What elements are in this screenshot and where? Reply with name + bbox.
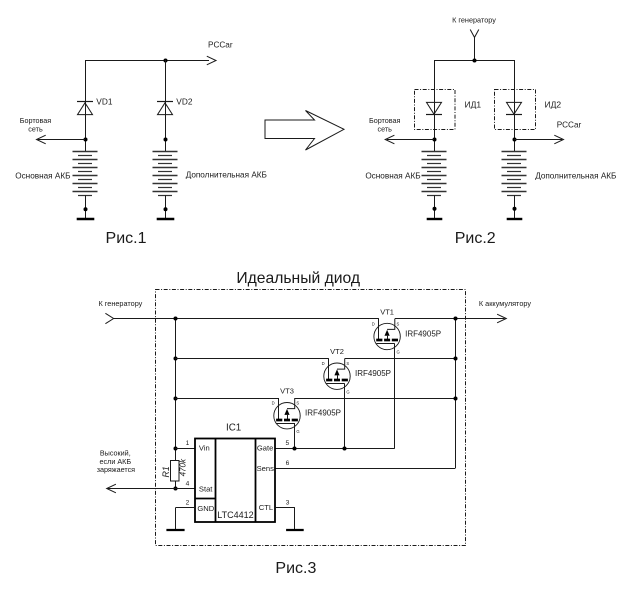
svg-text:К генератору: К генератору [99,299,143,308]
svg-text:G: G [296,429,299,434]
svg-text:D: D [272,401,275,406]
svg-text:Дополнительная АКБ: Дополнительная АКБ [186,171,267,180]
svg-text:Основная АКБ: Основная АКБ [365,171,420,180]
svg-text:VD1: VD1 [96,96,113,106]
svg-text:Рис.1: Рис.1 [106,230,147,247]
svg-text:Stat: Stat [199,484,213,493]
svg-text:6: 6 [286,460,290,467]
svg-text:S: S [296,401,299,406]
svg-text:IRF4905P: IRF4905P [305,409,341,418]
svg-text:К аккумулятору: К аккумулятору [479,299,531,308]
svg-text:LTC4412: LTC4412 [217,510,253,520]
svg-text:Основная АКБ: Основная АКБ [15,171,70,180]
svg-text:G: G [346,389,349,394]
svg-text:S: S [397,321,400,326]
svg-text:CTL: CTL [259,503,273,512]
svg-text:R1: R1 [161,466,171,477]
svg-text:К генератору: К генератору [452,15,496,24]
svg-text:Идеальный диод: Идеальный диод [236,270,360,287]
svg-text:заряжается: заряжается [97,465,135,474]
svg-text:GND: GND [197,504,214,513]
svg-text:Sens: Sens [257,464,275,473]
svg-text:IRF4905P: IRF4905P [405,329,441,338]
svg-text:PCCar: PCCar [208,41,233,50]
svg-text:5: 5 [285,440,289,447]
svg-text:IRF4905P: IRF4905P [355,369,391,378]
svg-text:ИД2: ИД2 [545,99,562,109]
svg-text:Дополнительная АКБ: Дополнительная АКБ [535,171,616,180]
svg-text:3: 3 [286,500,290,507]
svg-text:VT3: VT3 [280,387,294,396]
svg-text:PCCar: PCCar [557,120,582,129]
svg-text:Рис.2: Рис.2 [455,230,496,247]
svg-text:VT1: VT1 [380,307,394,316]
svg-text:сеть: сеть [28,125,43,134]
svg-text:S: S [346,361,349,366]
svg-text:VD2: VD2 [176,96,193,106]
svg-text:D: D [322,361,325,366]
svg-text:G: G [397,350,400,355]
svg-text:Gate: Gate [257,444,273,453]
svg-text:VT2: VT2 [330,347,344,356]
svg-text:2: 2 [186,500,190,507]
svg-text:Vin: Vin [199,444,210,453]
svg-text:Рис.3: Рис.3 [275,560,316,577]
svg-text:1: 1 [186,440,190,447]
svg-text:D: D [372,321,375,326]
svg-text:470k: 470k [179,458,188,476]
svg-text:сеть: сеть [378,124,393,133]
svg-text:IC1: IC1 [226,423,241,434]
svg-text:4: 4 [186,480,190,487]
svg-text:ИД1: ИД1 [465,99,482,109]
